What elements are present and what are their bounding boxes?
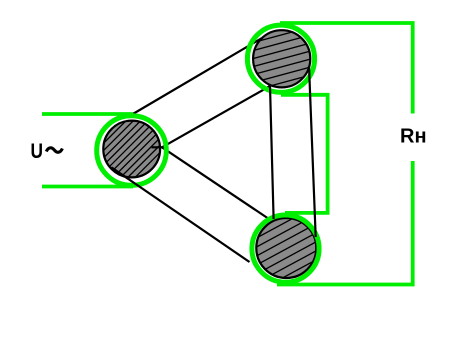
junction stub at left core [152, 146, 163, 148]
winding loop W1 (green turn around left core) [97, 116, 167, 186]
svg-text:Rн: Rн [400, 126, 427, 148]
core T (top magnetic core) [233, 21, 333, 104]
wire top core to load Rn (top run) [280, 23, 413, 114]
AC tilde symbol [46, 148, 62, 152]
wire from source U top [42, 112, 133, 116]
wire load Rn to bottom core (right run) [277, 161, 413, 285]
winding loop W2 (green turn around top core) [247, 25, 314, 92]
wire D (delta winding: top core to bottom core, right) [309, 66, 316, 237]
svg-text:U: U [31, 140, 44, 163]
wire E (delta winding: left core junction to bottom core) [162, 147, 268, 218]
wire C (delta winding: top core to bottom core, left) [270, 86, 274, 219]
wire from source U bottom [42, 185, 133, 189]
wire A (delta winding: left core top to top core) [132, 38, 262, 114]
wire series link top core to bottom core [281, 95, 328, 213]
wire F (delta winding: left core bottom to bottom core) [111, 167, 249, 262]
core L (left magnetic core) [83, 20, 183, 230]
wire B (delta winding: left core junction to top core) [162, 86, 270, 147]
winding loop W3 (green turn around bottom core) [252, 215, 319, 282]
core B (bottom magnetic core) [236, 184, 340, 303]
